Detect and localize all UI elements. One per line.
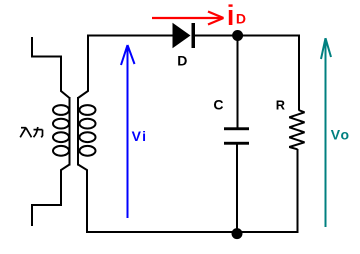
diode D xyxy=(173,23,196,48)
current arrow iD xyxy=(152,12,224,25)
voltage arrow Vo xyxy=(321,38,331,227)
wire: primary bottom lead with input terminal xyxy=(32,165,70,227)
wire: top wire from diode to right corner, down to resistor xyxy=(194,36,299,111)
label iD xyxy=(229,4,247,26)
capacitor C top lead xyxy=(237,36,239,129)
voltage arrow Vi xyxy=(121,45,135,218)
transformer T secondary winding xyxy=(78,97,96,166)
svg-text:D: D xyxy=(177,52,187,68)
svg-text:C: C xyxy=(213,97,223,113)
wire: top wire from secondary to diode xyxy=(87,35,173,37)
wire: secondary bottom lead xyxy=(78,165,87,233)
capacitor C plates xyxy=(224,127,249,144)
label 入力 xyxy=(20,127,42,137)
svg-text:Vi: Vi xyxy=(132,128,148,144)
wire: secondary top lead xyxy=(78,36,88,99)
svg-text:D: D xyxy=(236,11,246,27)
svg-text:V: V xyxy=(331,126,341,142)
resistor R zigzag xyxy=(289,110,304,149)
svg-text:R: R xyxy=(276,98,285,113)
node N2 junction dot xyxy=(232,228,243,239)
wire: resistor bottom lead xyxy=(297,149,299,232)
svg-text:o: o xyxy=(341,127,350,143)
wire: bottom wire xyxy=(86,231,299,233)
wire: primary top lead with input terminal xyxy=(32,37,70,98)
transformer T primary winding xyxy=(53,97,70,166)
capacitor C bottom lead xyxy=(236,145,238,233)
node N1 junction dot xyxy=(232,30,243,41)
